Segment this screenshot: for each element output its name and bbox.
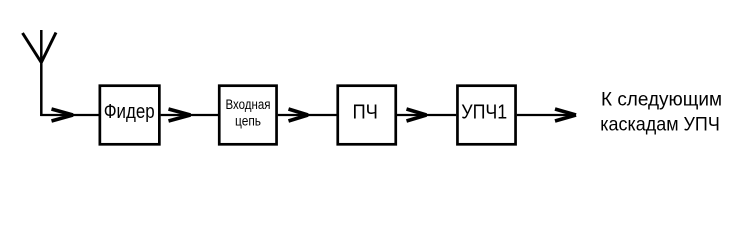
block Входная цепь bbox=[219, 86, 276, 145]
wire antenna to feeder bbox=[40, 114, 98, 116]
block ПЧ bbox=[338, 86, 396, 145]
wire IF mixer to IF amplifier bbox=[397, 114, 456, 116]
arrowhead into IF mixer bbox=[289, 109, 309, 121]
arrowhead into IF amplifier bbox=[407, 109, 427, 121]
arrowhead into feeder bbox=[52, 109, 74, 121]
arrowhead into input circuit bbox=[169, 109, 191, 121]
svg-text:К следующим: К следующим bbox=[601, 89, 722, 111]
svg-text:цепь: цепь bbox=[235, 114, 261, 129]
arrowhead output bbox=[555, 109, 576, 121]
wire output of IF amplifier bbox=[517, 114, 573, 116]
block УПЧ1 bbox=[457, 86, 515, 145]
svg-text:Входная: Входная bbox=[226, 97, 271, 112]
svg-text:ПЧ: ПЧ bbox=[352, 101, 378, 123]
block Фидер bbox=[100, 86, 160, 145]
svg-text:Фидер: Фидер bbox=[104, 101, 155, 123]
wire input circuit to IF mixer bbox=[278, 114, 337, 116]
antenna bbox=[23, 30, 57, 116]
wire feeder to input circuit bbox=[161, 114, 218, 116]
label К следующим каскадам УПЧ bbox=[600, 89, 722, 136]
svg-text:УПЧ1: УПЧ1 bbox=[461, 101, 507, 123]
svg-text:каскадам УПЧ: каскадам УПЧ bbox=[600, 114, 720, 136]
